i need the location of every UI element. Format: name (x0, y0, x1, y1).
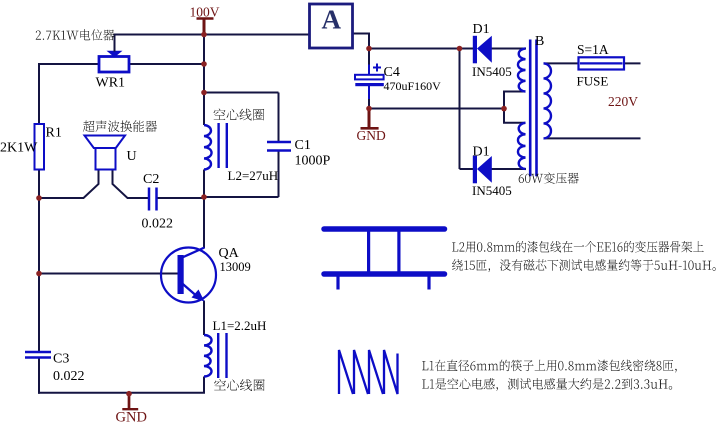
node base tee (36, 271, 42, 277)
transducer U horn (85, 136, 126, 149)
svg-text:A: A (322, 5, 342, 35)
wire emitter down to L1 (203, 301, 205, 336)
node C4 bottom junction (366, 106, 372, 112)
label ultrasonic transducer (83, 120, 157, 132)
ground (mid, C4) (368, 109, 371, 128)
label air-core coil (L2) (214, 109, 265, 121)
wire left rail mid (R1 to C3) (38, 169, 40, 351)
note L1 winding text line1 (422, 360, 677, 373)
fuse body (579, 57, 625, 69)
wire secondary top lead (544, 62, 580, 64)
svg-text:D1: D1 (473, 22, 490, 37)
EE16 core sketch bottom bar (324, 271, 445, 277)
wire primary top winding return (504, 92, 526, 109)
svg-text:2K1W: 2K1W (0, 141, 38, 156)
svg-text:IN5405: IN5405 (472, 183, 512, 198)
diode D1 top (anode triangle) (477, 36, 492, 63)
svg-text:100V: 100V (190, 5, 220, 20)
note L2 winding text line2 (452, 259, 716, 272)
capacitor C3 plates (25, 351, 51, 353)
capacitor C4 bottom plate (355, 83, 384, 86)
svg-text:S=1A: S=1A (577, 42, 609, 57)
wire tank right branch lower (278, 152, 280, 198)
svg-text:WR1: WR1 (96, 76, 126, 91)
transistor QA circle (161, 248, 216, 303)
inductor L1 core lines (217, 333, 219, 378)
wire main vertical bus (100V node down to L2) (203, 33, 205, 125)
node tank bottom junction (201, 194, 207, 200)
wire primary bottom winding feed (504, 109, 526, 123)
svg-text:L2=27uH: L2=27uH (228, 168, 279, 183)
wire wiper to ammeter (top rail) (114, 34, 310, 36)
svg-text:GND: GND (116, 410, 147, 422)
svg-text:B: B (535, 34, 544, 49)
svg-text:C4: C4 (384, 65, 400, 80)
svg-text:220V: 220V (608, 94, 638, 109)
svg-text:U: U (127, 149, 137, 164)
wire bridge right vertical (459, 49, 461, 170)
svg-text:IN5405: IN5405 (472, 64, 512, 79)
note L2 winding text line1 (452, 241, 704, 253)
wire fuse to 220V line (624, 62, 641, 64)
inductor L2 core lines (217, 123, 219, 168)
wire C2 to bus (157, 197, 204, 199)
wire left rail lower (C3 to bottom rail) (39, 358, 40, 393)
svg-text:D1: D1 (473, 145, 490, 160)
wire ammeter output right+down (353, 34, 370, 49)
L1 coil sketch zigzag (339, 350, 398, 394)
svg-text:GND: GND (357, 128, 386, 143)
transducer U body (96, 148, 116, 170)
wire tank right branch upper (278, 93, 280, 142)
wire L2 lower to collector (203, 170, 205, 249)
label 2.7K1W potentiometer (36, 29, 115, 40)
svg-text:470uF160V: 470uF160V (384, 79, 442, 93)
label air-core coil (L1) (214, 379, 265, 391)
wire L1 to bottom rail (38, 377, 204, 393)
svg-text:C3: C3 (53, 352, 69, 367)
EE16 core sketch bobbin pins (336, 277, 339, 290)
transformer B core lines (529, 40, 532, 177)
diode D1 top (cathode bar) (473, 36, 477, 64)
capacitor C4 plus sign (373, 67, 381, 69)
wire fuse internal (579, 62, 624, 64)
EE16 core sketch center legs (367, 229, 370, 274)
potentiometer WR1 body (99, 57, 129, 73)
node transducer tee (36, 195, 42, 201)
fuse internal wire (580, 62, 623, 64)
svg-text:13009: 13009 (220, 260, 251, 274)
transistor QA emitter arrowhead (192, 290, 205, 302)
wire C4 branch lower (368, 86, 370, 100)
node bridge top junction (457, 46, 463, 52)
transformer B secondary winding (544, 63, 552, 138)
svg-text:L1=2.2uH: L1=2.2uH (213, 318, 267, 333)
svg-text:FUSE: FUSE (577, 74, 609, 89)
potentiometer WR1 wiper arrow (107, 51, 123, 57)
note L1 winding text line2 (422, 378, 672, 391)
wire base (39, 273, 178, 275)
svg-text:QA: QA (219, 246, 240, 261)
transformer B primary bottom winding (518, 123, 526, 169)
inductor L2 winding (204, 125, 212, 170)
EE16 core sketch top bar (324, 226, 445, 232)
wire diode D1 bottom to secondary-lower winding (492, 168, 527, 170)
wire diode D1 top to primary winding (492, 48, 527, 50)
diode D1 bottom (cathode bar) (473, 156, 477, 184)
svg-text:0.022: 0.022 (53, 369, 85, 384)
wire left rail upper (pot corner to R1) (39, 64, 100, 125)
transistor QA base bar (178, 255, 184, 294)
svg-text:R1: R1 (46, 126, 62, 141)
transistor QA collector stroke (180, 248, 205, 259)
ground (bottom rail) (128, 394, 131, 409)
power +100V bar (197, 17, 214, 20)
inductor L1 winding (204, 335, 212, 377)
transistor QA emitter stroke (181, 282, 200, 299)
wire C4 branch upper (368, 49, 370, 66)
node C4 top junction (366, 46, 372, 52)
capacitor C4 top plate (355, 75, 384, 80)
svg-text:0.022: 0.022 (142, 217, 174, 232)
wire to diode D1 bottom (460, 168, 475, 170)
capacitor C1 plates (267, 141, 291, 144)
node 100V junction (201, 32, 207, 38)
wire rectifier top rail (369, 48, 475, 50)
node pot-right junction (201, 61, 207, 67)
svg-text:C2: C2 (143, 172, 159, 187)
wire tank bottom (204, 196, 279, 198)
wire transducer right leg (113, 169, 149, 198)
svg-text:C1: C1 (295, 138, 311, 153)
transformer B primary top winding (518, 49, 526, 92)
capacitor C2 plates (148, 188, 151, 211)
svg-text:1000P: 1000P (295, 154, 331, 169)
wire secondary bottom lead (544, 137, 641, 139)
diode D1 bottom (anode triangle) (477, 156, 492, 183)
ammeter A box (310, 4, 353, 48)
wire transducer left leg (39, 169, 99, 198)
wire tank top (204, 92, 279, 94)
node tank top junction (201, 90, 207, 96)
node bottom ground tee (126, 391, 132, 397)
resistor R1 body (35, 124, 45, 170)
wire pot right to bus (129, 63, 205, 65)
node center tap junction (501, 106, 507, 112)
wire center tap (369, 108, 504, 110)
label 60W transformer (519, 172, 579, 183)
